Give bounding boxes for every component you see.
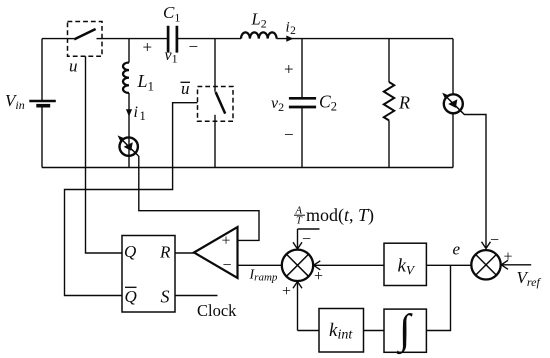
svg-text:v2: v2 xyxy=(271,95,284,114)
svg-text:+: + xyxy=(222,233,231,250)
svg-text:+: + xyxy=(143,38,153,57)
svg-text:L2: L2 xyxy=(251,10,267,31)
flip-flop (SR latch) xyxy=(122,236,175,313)
label A/T mod(t,T) xyxy=(294,205,374,227)
svg-text:+: + xyxy=(282,283,291,300)
wire u gate down to flip-flop Q xyxy=(86,56,123,253)
svg-text:Iramp: Iramp xyxy=(249,268,278,284)
svg-text:−: − xyxy=(189,37,199,56)
svg-text:∫: ∫ xyxy=(396,307,413,355)
wire top rail xyxy=(42,38,453,40)
resistor R xyxy=(388,39,390,82)
wire k_int output left xyxy=(298,330,320,332)
svg-text:S: S xyxy=(161,287,170,307)
svg-text:+: + xyxy=(504,249,513,266)
wire right column xyxy=(452,39,454,168)
svg-text:kint: kint xyxy=(329,320,353,343)
svg-text:Q: Q xyxy=(125,287,137,306)
svg-text:R: R xyxy=(159,243,171,262)
capacitor C2 xyxy=(301,39,303,168)
wire comparator minus input / I_ramp xyxy=(238,264,282,266)
capacitor C1 xyxy=(168,26,177,53)
svg-text:i1: i1 xyxy=(134,104,146,123)
inductor L1 xyxy=(128,39,130,63)
wire sensor S2 output down to summing junction 2 xyxy=(463,113,486,248)
svg-text:C2: C2 xyxy=(319,92,337,114)
block k_int xyxy=(319,309,364,353)
svg-text:i2: i2 xyxy=(286,20,297,38)
wire Vref input xyxy=(502,264,532,266)
wire e node down to integrator xyxy=(426,265,450,330)
sensor S1 on L1 branch xyxy=(120,137,138,155)
wire bottom rail xyxy=(42,167,453,169)
block kV xyxy=(384,243,426,285)
svg-text:+: + xyxy=(314,268,323,285)
block integrator xyxy=(384,309,426,352)
svg-text:−: − xyxy=(302,231,311,248)
inductor L2 xyxy=(241,32,277,38)
svg-text:R: R xyxy=(398,93,410,113)
svg-text:Vref: Vref xyxy=(517,268,542,289)
arrow i2 xyxy=(286,36,293,42)
svg-text:Q: Q xyxy=(124,242,136,261)
svg-text:L1: L1 xyxy=(137,71,155,94)
node A/T mod(t,T) input xyxy=(298,228,320,230)
svg-text:u: u xyxy=(69,57,78,76)
arrow i1 xyxy=(126,109,132,116)
wire kV output into summing junction 1 xyxy=(314,264,384,266)
svg-text:−: − xyxy=(223,257,232,274)
summing junction 1 xyxy=(282,250,313,281)
arrow into junction 2 from sensor xyxy=(482,242,491,249)
svg-text:T: T xyxy=(296,216,303,227)
svg-text:Clock: Clock xyxy=(197,301,237,320)
battery Vin xyxy=(29,100,56,103)
svg-text:e: e xyxy=(453,240,461,259)
switch u-bar (dashed box) xyxy=(198,87,234,122)
svg-text:Vin: Vin xyxy=(5,91,25,112)
sensor S2 (output voltage) xyxy=(444,94,463,113)
wire S input (Clock) xyxy=(175,295,218,297)
wire k_int output up into summing junction 1 xyxy=(297,282,299,331)
svg-text:+: + xyxy=(284,60,294,79)
op-amp comparator xyxy=(194,227,238,278)
svg-text:−: − xyxy=(284,125,294,144)
switch u (dashed box) xyxy=(68,22,103,57)
wire left column (Vin branch) xyxy=(41,39,43,168)
summing junction 2 xyxy=(471,250,500,279)
svg-text:C1: C1 xyxy=(163,3,180,25)
svg-text:mod(t, T): mod(t, T) xyxy=(306,205,374,226)
wire integrator to k_int xyxy=(364,330,385,332)
svg-text:−: − xyxy=(490,232,499,249)
wire u-bar gate to flip-flop Qbar xyxy=(65,103,198,296)
node e and wire kV to summing junction 2 xyxy=(426,264,470,266)
svg-text:kV: kV xyxy=(398,256,416,278)
wire R input from comparator xyxy=(175,252,194,254)
wire sensor S1 output to comparator + xyxy=(138,155,259,240)
